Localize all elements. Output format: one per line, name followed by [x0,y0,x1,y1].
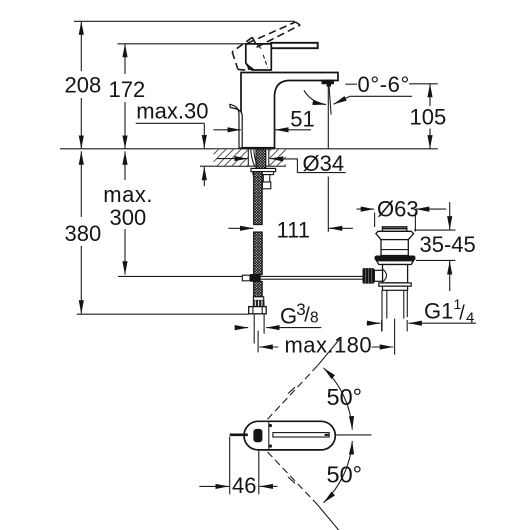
screw dot bottom [269,445,272,448]
dashed lever tip cap [295,22,300,25]
svg-text:8: 8 [310,310,319,327]
50deg lower solid line [318,505,341,530]
deck hatch left [214,149,248,165]
hole edge right [268,149,270,166]
aerator [322,80,335,87]
ext line 208 top [74,20,295,22]
dim OE63 [357,197,447,222]
chord line [268,421,270,450]
faucet body and spout outline [241,73,338,149]
50deg upper dashed line [268,366,318,420]
rod plan [230,433,248,436]
dim 380 [65,151,102,313]
50deg upper solid line [318,337,342,366]
dim max.180 [259,333,393,358]
centerline [335,434,371,436]
dim 46 [199,437,277,498]
svg-text:300: 300 [110,205,147,230]
ext line max300 bottom [118,275,242,277]
boss facet lines [257,44,262,49]
dim max.30 [136,99,209,186]
horizontal pop-up linkage rod [242,275,362,277]
cartridge wedge shadow [247,64,255,70]
spout axis 6deg line [329,85,331,115]
svg-text:380: 380 [65,221,102,246]
dim 208 [65,21,102,149]
dim 172 [109,44,146,149]
svg-text:46: 46 [232,473,256,498]
50deg lower dashed line [268,452,318,505]
svg-text:35-45: 35-45 [420,232,476,257]
hose segment 3 [254,281,263,297]
svg-text:max.180: max.180 [285,333,373,358]
gasket ring [375,256,416,261]
ext lines G1-1/4 [381,320,383,331]
mounting flange nut [251,168,276,171]
ext line 172 top [118,43,246,45]
boss hidden edge dashed [263,55,267,68]
hose curves in hole [251,150,257,167]
hole edge left [247,149,249,166]
ext line 380 bottom [77,313,249,315]
drain plug cap [382,227,406,232]
label 0-6 [334,72,438,105]
washer [377,261,414,265]
svg-text:111: 111 [277,217,310,242]
cartridge hole [253,429,262,442]
dim 35-45 [414,202,476,291]
svg-text:50°: 50° [327,384,363,410]
lever blade solid [271,43,318,48]
threaded shank [256,149,266,169]
hose segment 2 [254,232,263,275]
hose segment 1 [254,172,263,225]
ribbed collar [253,300,265,306]
deck top line [60,148,438,150]
hose ferrule [253,297,263,301]
deck hatch right [270,149,286,165]
bottom step [379,283,411,286]
svg-text:/: / [459,302,465,324]
ext lines OE63 [374,213,376,228]
svg-text:208: 208 [65,73,102,98]
pop-up rod (above deck) [230,104,242,148]
svg-text:0°-6°: 0°-6° [358,72,410,97]
base escutcheon [241,147,275,150]
screw dot top [269,424,272,427]
knurled knob [363,268,375,284]
stadium outline [244,421,335,450]
spout axis line upper [327,85,329,149]
dashed lever raised [232,22,300,70]
svg-text:50°: 50° [327,462,363,488]
tail pipe [381,290,383,331]
drain axis line [394,319,396,355]
supply pipe below nut [253,314,255,344]
svg-text:51: 51 [290,106,314,131]
arc upper [324,368,353,430]
dim G3-8 [235,300,321,329]
rod clamp tee [250,274,261,282]
dim 51 [214,106,315,136]
dim G1-1/4 [367,296,477,327]
svg-text:Ø34: Ø34 [303,151,345,176]
G3-8 hex nut [249,307,267,314]
lever boss [246,44,271,70]
drain upper body [381,240,408,256]
dim max.300 [103,151,153,274]
spout axis line lower [327,177,329,232]
svg-text:max.: max. [103,182,153,207]
drain lower body [383,265,408,283]
arc lower [324,441,353,503]
rod left connector [242,275,250,281]
deck bottom line [200,165,286,167]
svg-text:105: 105 [410,105,447,130]
jog mark lower [288,477,295,483]
inlet socket arc [383,269,387,282]
jog mark upper [288,387,295,393]
svg-text:4: 4 [466,310,474,327]
rod connector sleeve [374,270,382,281]
drain trumpet flange [376,231,414,239]
ext line faucet axis [257,331,259,353]
body seam [381,249,408,251]
svg-text:Ø63: Ø63 [377,197,419,222]
svg-text:max.30: max.30 [136,99,208,124]
swivel arc with arrow [304,90,326,104]
lever plan [273,433,329,437]
ring band [383,286,408,290]
dim 105 [410,84,447,149]
svg-text:G1: G1 [424,298,453,323]
lever tip mark [325,434,329,436]
cartridge dome [247,64,252,70]
svg-text:G: G [280,304,297,329]
mounting stud and screw block [263,175,270,182]
